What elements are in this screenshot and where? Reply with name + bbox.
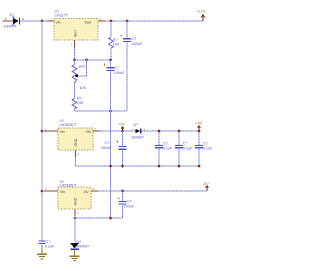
wire pot to R2 <box>74 83 76 99</box>
node junction at (122.5,131) <box>121 130 124 133</box>
svg-text:D?: D? <box>77 240 82 244</box>
diode D? 1N4007 (series on +5V rail) <box>131 123 145 139</box>
svg-text:C?: C? <box>132 37 137 41</box>
svg-text:1N4007: 1N4007 <box>76 245 89 249</box>
resistor R? 240 <box>72 97 83 112</box>
node junction at (179,166) <box>178 165 181 168</box>
svg-text:+5V: +5V <box>196 121 203 125</box>
capacitor C? 0.1uF (input bypass bottom left) <box>39 240 55 249</box>
svg-text:Vout: Vout <box>84 21 91 25</box>
svg-text:GND: GND <box>74 138 78 146</box>
svg-text:1: 1 <box>71 43 73 47</box>
svg-text:1: 1 <box>77 211 79 215</box>
node junction at (159,131) <box>158 130 161 133</box>
svg-text:100uF: 100uF <box>132 42 143 46</box>
node junction at (122.5,191) <box>121 190 124 193</box>
svg-text:C?: C? <box>183 141 188 145</box>
capacitor C? 100uF (ADJ bypass) <box>103 60 125 75</box>
node junction at (111,21) <box>110 20 113 23</box>
node junction at (110.5,60) <box>109 59 112 62</box>
resistor R? 10K (Vout to ADJ) <box>109 21 120 60</box>
potentiometer RP? 10K <box>72 60 86 90</box>
wire input rail left segment <box>20 20 48 22</box>
ground symbol (x42) <box>37 247 47 259</box>
capacitor C? 0.1uF (x199) <box>195 131 213 166</box>
svg-text:10K: 10K <box>113 42 120 46</box>
svg-text:LM7805CT: LM7805CT <box>60 123 78 127</box>
node junction at (110.5,111) <box>109 110 112 113</box>
power +5V port mid <box>118 123 125 132</box>
power +12V port top right <box>196 9 206 21</box>
svg-text:D?: D? <box>134 123 139 127</box>
node junction at (127,21) <box>126 20 129 23</box>
wire +5V output rail y131 <box>100 130 199 132</box>
node junction at (74.5,60) <box>73 59 76 62</box>
svg-text:Vin: Vin <box>60 190 65 194</box>
svg-text:LM317T: LM317T <box>55 14 69 18</box>
wire ADJ pin drop <box>74 47 76 60</box>
svg-text:0.1uF: 0.1uF <box>203 146 213 150</box>
capacitor C? 0.1uF (x179) <box>175 131 193 166</box>
svg-text:100uF: 100uF <box>101 146 112 150</box>
node junction at (199,166) <box>198 165 201 168</box>
svg-text:3: 3 <box>93 187 95 191</box>
svg-text:+5V: +5V <box>85 130 92 134</box>
svg-text:C?: C? <box>114 66 119 70</box>
power -5V port right end <box>203 182 209 191</box>
node junction at (110.5,166) <box>109 165 112 168</box>
node junction at (42,21) <box>41 20 44 23</box>
svg-text:Vin: Vin <box>56 21 61 25</box>
op-amp U? LM7805CT regulator body <box>42 119 100 157</box>
svg-text:1N4007: 1N4007 <box>131 135 144 139</box>
svg-text:RP?: RP? <box>79 65 86 69</box>
node junction at (199,131) <box>198 130 201 133</box>
op-amp U? LM317T regulator body <box>47 10 105 47</box>
node junction at (110.5,218) <box>109 217 112 220</box>
power +5V port right end <box>196 121 203 131</box>
capacitor C? 100uF (-5V output) <box>118 191 135 218</box>
svg-text:C?: C? <box>127 199 132 203</box>
node junction at (122.5,166) <box>121 165 124 168</box>
wire -5V output rail y191 <box>98 190 207 192</box>
wire ADJ node horizontal y60 <box>75 59 111 61</box>
svg-text:100uF: 100uF <box>114 71 125 75</box>
svg-text:10K: 10K <box>80 86 87 90</box>
wire long vertical input line x42 <box>41 21 43 240</box>
svg-text:C?: C? <box>163 141 168 145</box>
svg-text:-5V: -5V <box>83 190 89 194</box>
wire ground return rail y111 <box>75 110 128 112</box>
node junction at (42,191) <box>41 190 44 193</box>
svg-text:0.1uF: 0.1uF <box>183 146 193 150</box>
svg-text:GND: GND <box>74 197 78 205</box>
wire gnd pin drop of 7805 <box>75 157 77 166</box>
capacitor C? 100uF (before diode) <box>101 131 127 166</box>
wire output rail of U? LM317 <box>105 20 203 22</box>
svg-text:C?: C? <box>203 141 208 145</box>
svg-text:0.1uF: 0.1uF <box>163 146 173 150</box>
svg-text:C?: C? <box>46 240 51 244</box>
svg-text:-5V: -5V <box>203 182 209 186</box>
svg-text:D?: D? <box>10 13 15 17</box>
svg-text:240: 240 <box>77 101 83 105</box>
node junction at (86.5,60) <box>85 59 88 62</box>
svg-text:0.1uF: 0.1uF <box>45 245 55 249</box>
node junction at (159,166) <box>158 165 161 168</box>
svg-text:C?: C? <box>105 141 110 145</box>
node junction at (42,131) <box>41 130 44 133</box>
wire long ground vertical x110.5 <box>110 72 112 218</box>
svg-text:R?: R? <box>77 97 82 101</box>
svg-text:ADJ: ADJ <box>74 30 78 37</box>
diode D? 1N4007 (series input diode) <box>3 13 25 29</box>
svg-text:2: 2 <box>78 152 80 156</box>
op-amp U? LM7905CT regulator body <box>42 180 98 216</box>
svg-text:2: 2 <box>45 187 47 191</box>
diode D? 1N4007 (to ground, pointing down) <box>70 240 89 250</box>
ground symbol (x75) <box>70 250 80 260</box>
svg-text:+5V: +5V <box>118 123 125 127</box>
wire bottom return rail y218 <box>75 217 123 219</box>
capacitor C? 100uF (Vout to gnd chain) <box>120 21 143 111</box>
svg-text:LM7905CT: LM7905CT <box>60 184 78 188</box>
svg-text:+12V: +12V <box>196 9 206 14</box>
wire ground rail y166 <box>76 165 200 167</box>
wire gnd pin of 7905 down <box>74 216 76 243</box>
svg-text:1N4007: 1N4007 <box>4 25 17 29</box>
svg-text:100uF: 100uF <box>124 204 135 208</box>
node junction at (75,218) <box>74 217 77 220</box>
capacitor C? 0.1uF (x159) <box>155 131 173 166</box>
node junction at (179,131) <box>178 130 181 133</box>
svg-text:Vin: Vin <box>60 130 65 134</box>
